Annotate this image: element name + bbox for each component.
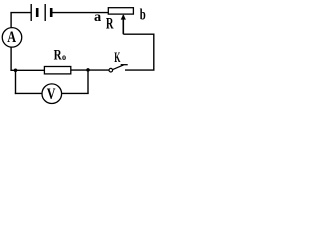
svg-text:b: b	[140, 6, 146, 24]
wire top-left horizontal	[10, 12, 30, 14]
wire wiper horizontal	[123, 33, 154, 35]
rheostat R body	[108, 8, 133, 14]
wire top horizontal to rheostat	[53, 12, 109, 14]
wire R0 to switch	[71, 69, 88, 71]
wire right vertical	[153, 34, 155, 70]
svg-text:R: R	[106, 16, 114, 33]
wire switch to junction	[88, 69, 109, 71]
resistor R0 body	[44, 67, 70, 74]
svg-text:a: a	[94, 10, 101, 25]
wire left vertical lower	[10, 47, 12, 71]
wire left vertical upper	[10, 13, 12, 29]
svg-text:A: A	[7, 29, 16, 46]
switch K	[109, 65, 128, 72]
node junction right (dot)	[86, 68, 90, 72]
wire switch-row right	[125, 69, 155, 71]
wire V-row right	[62, 92, 89, 94]
svg-text:K: K	[114, 50, 121, 66]
wire left branch vertical down	[15, 70, 17, 94]
wire V-row left	[15, 92, 42, 94]
wire right branch vertical down	[87, 70, 89, 93]
rheostat wiper arrow	[121, 14, 126, 34]
ammeter A	[2, 28, 22, 48]
svg-text:R: R	[54, 48, 63, 64]
battery B1	[31, 4, 51, 21]
svg-text:V: V	[47, 86, 56, 103]
svg-text:o: o	[62, 52, 66, 63]
voltmeter V	[42, 84, 62, 104]
node junction left (dot)	[14, 68, 18, 72]
wire R0-row left	[10, 69, 44, 71]
